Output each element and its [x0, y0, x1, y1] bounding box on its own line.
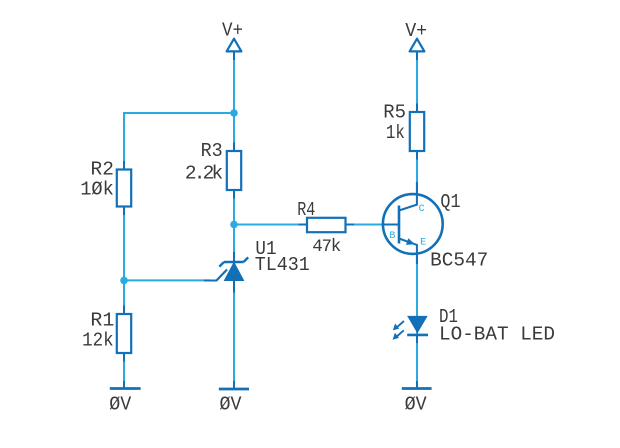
power V+ right symbol: [410, 39, 425, 60]
wire right branch vertical V+ to ground: [416, 51, 418, 389]
svg-text:12k: 12k: [82, 330, 114, 352]
svg-text:ØV: ØV: [220, 394, 242, 416]
svg-text:C: C: [419, 203, 425, 215]
power V+ left symbol: [227, 39, 242, 60]
svg-text:V+: V+: [405, 20, 427, 42]
svg-text:V+: V+: [222, 20, 243, 42]
resistor R1: [117, 306, 131, 362]
svg-text:R3: R3: [201, 140, 223, 162]
svg-text:47k: 47k: [312, 237, 341, 257]
wire middle vertical V+ to ground: [233, 51, 235, 389]
svg-text:R2: R2: [91, 158, 114, 180]
svg-text:TL431: TL431: [255, 254, 310, 276]
svg-text:BC547: BC547: [430, 250, 488, 272]
ground middle: [219, 381, 249, 389]
svg-text:ØV: ØV: [109, 394, 131, 416]
svg-text:2.2k: 2.2k: [185, 162, 223, 184]
svg-text:Q1: Q1: [440, 191, 460, 213]
junction node TL431 cathode / base wire: [230, 221, 238, 229]
transistor Q1: [383, 182, 443, 264]
LED D1: [393, 316, 428, 343]
resistor R4: [299, 218, 355, 232]
svg-text:R1: R1: [90, 310, 114, 332]
svg-text:E: E: [420, 237, 426, 249]
svg-text:LO-BAT LED: LO-BAT LED: [439, 324, 555, 346]
junction node at middle V+ rail: [230, 109, 238, 117]
wire TL431 reference from left node: [124, 279, 210, 281]
svg-text:B: B: [389, 230, 395, 242]
wire top horizontal from left branch to middle V+ node: [124, 113, 234, 280]
svg-text:ØV: ØV: [405, 394, 427, 416]
ground left: [110, 381, 141, 389]
svg-text:R5: R5: [383, 102, 406, 124]
svg-text:R4: R4: [297, 199, 315, 221]
svg-text:1k: 1k: [386, 122, 405, 144]
junction node left divider / reference: [120, 277, 128, 285]
resistor R5: [410, 104, 424, 160]
svg-text:1Øk: 1Øk: [80, 179, 114, 201]
shunt regulator U1 TL431: [204, 252, 248, 293]
resistor R2: [117, 161, 131, 215]
wire base from node to transistor: [234, 224, 385, 226]
resistor R3: [227, 143, 241, 199]
wire left branch vertical: [123, 280, 125, 388]
ground right: [402, 381, 432, 389]
